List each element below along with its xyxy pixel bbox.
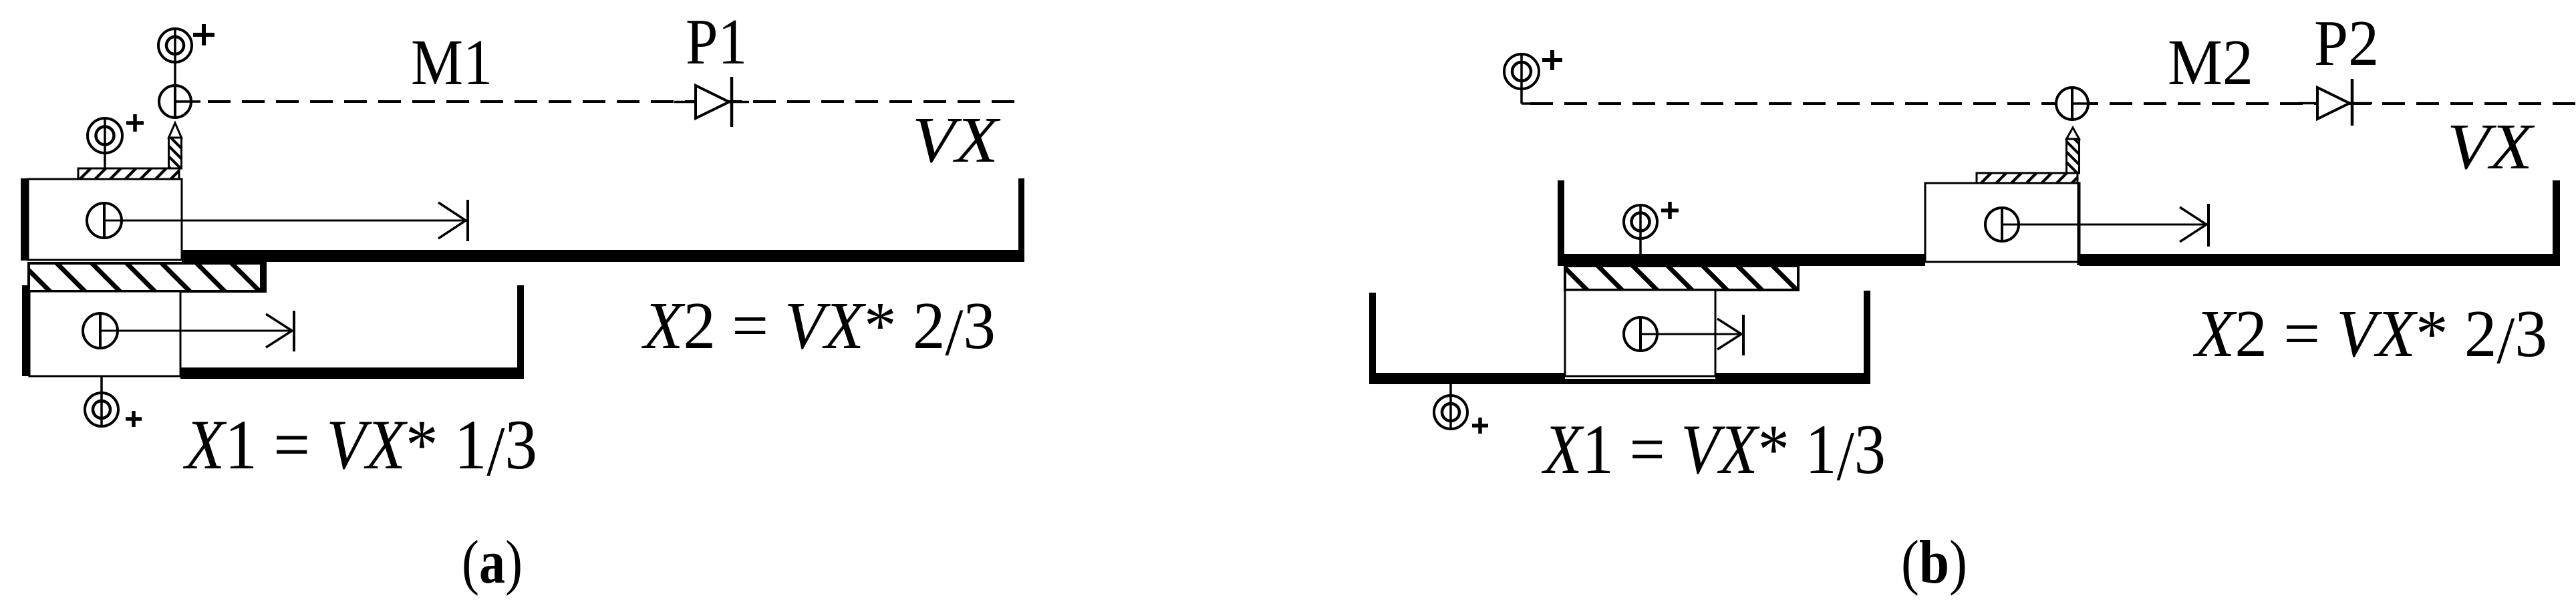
pointer needle (b) [2067, 128, 2080, 173]
thick left end plate of lower block (a) [22, 285, 30, 376]
lower slider block border (b) [1565, 290, 1715, 376]
valve P2 symbol (diode-like) [2317, 79, 2352, 126]
node: anchor symbol on rail (b) [1624, 205, 1657, 254]
node: target circle on motor line (a) [159, 86, 200, 118]
rail VX (a) [182, 178, 1024, 262]
thick left end plate of upper block (a) [21, 178, 29, 261]
lower slider block (b): white body over rail [1565, 290, 1715, 379]
node: anchor symbol bottom (b) [1434, 384, 1467, 429]
svg-text:M1: M1 [411, 27, 492, 99]
svg-text:(a): (a) [462, 528, 523, 596]
node: anchor symbol bottom (a) [85, 376, 118, 426]
rail X1 (b) [1369, 291, 1870, 384]
wire: dashed motor line M2 [1530, 102, 2576, 105]
plus mark on rail (b) [1661, 202, 1679, 219]
drive point circle in lower block (b) [1624, 317, 1657, 351]
right edge of middle block (b) [2078, 183, 2081, 265]
wire: solid elbow from anchor (b) [1522, 102, 1547, 105]
valve P1 symbol (diode-like) [696, 77, 732, 127]
slide pad strip on middle block (b) [1977, 173, 2078, 183]
drive point circle in middle block (b) [1985, 208, 2019, 241]
plus mark bottom (b) [1472, 418, 1488, 434]
wire: travel arrow of upper block (a) [104, 200, 468, 241]
plus mark bottom (a) [126, 411, 142, 427]
svg-text:(b): (b) [1901, 528, 1967, 596]
node: anchor symbol left (a) [88, 118, 122, 168]
pointer needle (a) [169, 123, 182, 168]
wire: solid segment through valve P1 [674, 101, 749, 104]
upper slider block (a) [28, 179, 182, 260]
wire: solid segment through valve P2 [2299, 102, 2372, 105]
wire: travel arrow of lower block (b) [1640, 315, 1743, 355]
node: target circle on motor line (b) [2056, 88, 2098, 120]
wire: travel arrow of middle block (b) [2002, 204, 2208, 247]
plus mark top-left (b) [1542, 50, 1562, 70]
plus mark top (a) [193, 24, 214, 45]
wire: travel arrow of lower block (a) [100, 311, 294, 351]
node: anchor symbol top-left (b) [1504, 54, 1539, 104]
wire: dashed motor line M1 [208, 100, 1021, 103]
svg-text:P1: P1 [686, 6, 747, 78]
rail X1 (a) [180, 285, 524, 379]
middle slide strip (a) [29, 263, 265, 291]
plus mark left (a) [126, 114, 144, 132]
node: anchor symbol top (a) [158, 29, 192, 86]
slide pad strip on upper block (a) [78, 168, 179, 179]
svg-text:VX: VX [2447, 111, 2535, 183]
drive point circle in upper block (a) [87, 203, 122, 238]
svg-text:M2: M2 [2168, 27, 2253, 99]
drive point circle in lower block (a) [83, 313, 118, 348]
rail VX (b) [1558, 180, 2560, 266]
lower slider block (a) [29, 291, 180, 376]
middle slide strip (b) [1565, 266, 1798, 290]
svg-text:VX: VX [912, 104, 1001, 176]
middle slider block border (b) [1925, 183, 2080, 262]
svg-text:X2 = VX* 2/3: X2 = VX* 2/3 [2192, 296, 2547, 377]
svg-text:X1 = VX* 1/3: X1 = VX* 1/3 [182, 406, 537, 490]
middle slider block (b): white body over rail [1925, 183, 2080, 266]
svg-text:P2: P2 [2314, 7, 2379, 80]
svg-text:X2 = VX* 2/3: X2 = VX* 2/3 [641, 288, 996, 369]
svg-text:X1 = VX* 1/3: X1 = VX* 1/3 [1541, 410, 1886, 495]
